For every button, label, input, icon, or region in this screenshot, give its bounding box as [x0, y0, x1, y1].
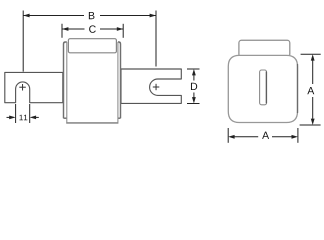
center mark + on left slot — [19, 84, 26, 91]
dimension D line — [193, 75, 195, 98]
dimension A right label — [307, 87, 314, 94]
dimension 11 extension line left — [15, 104, 17, 123]
dimension A right bottom tick — [300, 124, 321, 126]
side view slot dark right edge — [265, 72, 267, 104]
fuse top cap front view — [68, 39, 116, 53]
right blade tab with side slot — [121, 69, 181, 103]
fuse body outer right edge with top collar and bottom step — [118, 42, 121, 118]
dimension 11 left arrow with tail — [7, 116, 11, 118]
dimension C extension tick left — [61, 24, 63, 38]
dimension A right arrowheads — [311, 54, 315, 125]
dimension B extension line left — [22, 11, 24, 72]
fuse body bottom edge — [66, 122, 118, 124]
dimension B label — [89, 12, 95, 19]
dimension D label — [191, 83, 197, 90]
dimension C line — [62, 28, 123, 30]
dimension C extension tick right — [122, 24, 124, 38]
fuse body inner right line — [117, 42, 119, 122]
fuse body outer left edge with top collar and bottom step — [64, 42, 67, 118]
dimension 11 right arrow with tail — [35, 116, 39, 118]
dimension A right line — [312, 60, 314, 119]
side view body darker right edge — [297, 64, 299, 113]
dimension B arrowheads — [23, 14, 156, 18]
dimension A bottom line — [234, 136, 292, 138]
center mark + on right slot — [153, 84, 160, 90]
side view center slot — [260, 70, 267, 105]
side view fuse body — [228, 55, 297, 122]
dimension B extension line right — [155, 11, 157, 67]
side view top cap — [239, 40, 290, 57]
dimension D top tick — [187, 68, 200, 70]
dimension A bottom left tick — [227, 128, 229, 143]
dimension B line — [23, 15, 156, 17]
dimension A bottom label — [262, 132, 269, 139]
dimension C arrowheads — [62, 27, 123, 31]
left blade tab with bottom slot — [5, 72, 63, 102]
dimension C label — [89, 25, 96, 32]
dimension A right top tick — [301, 53, 321, 55]
dimension 11 label — [19, 115, 27, 121]
dimension D arrowheads — [192, 69, 196, 104]
fuse body inner left line — [66, 42, 68, 122]
dimension 11 extension line right — [29, 104, 31, 123]
dimension D bottom tick — [187, 103, 200, 105]
dimension A bottom right tick — [297, 128, 299, 143]
dimension A bottom arrowheads — [228, 135, 298, 139]
